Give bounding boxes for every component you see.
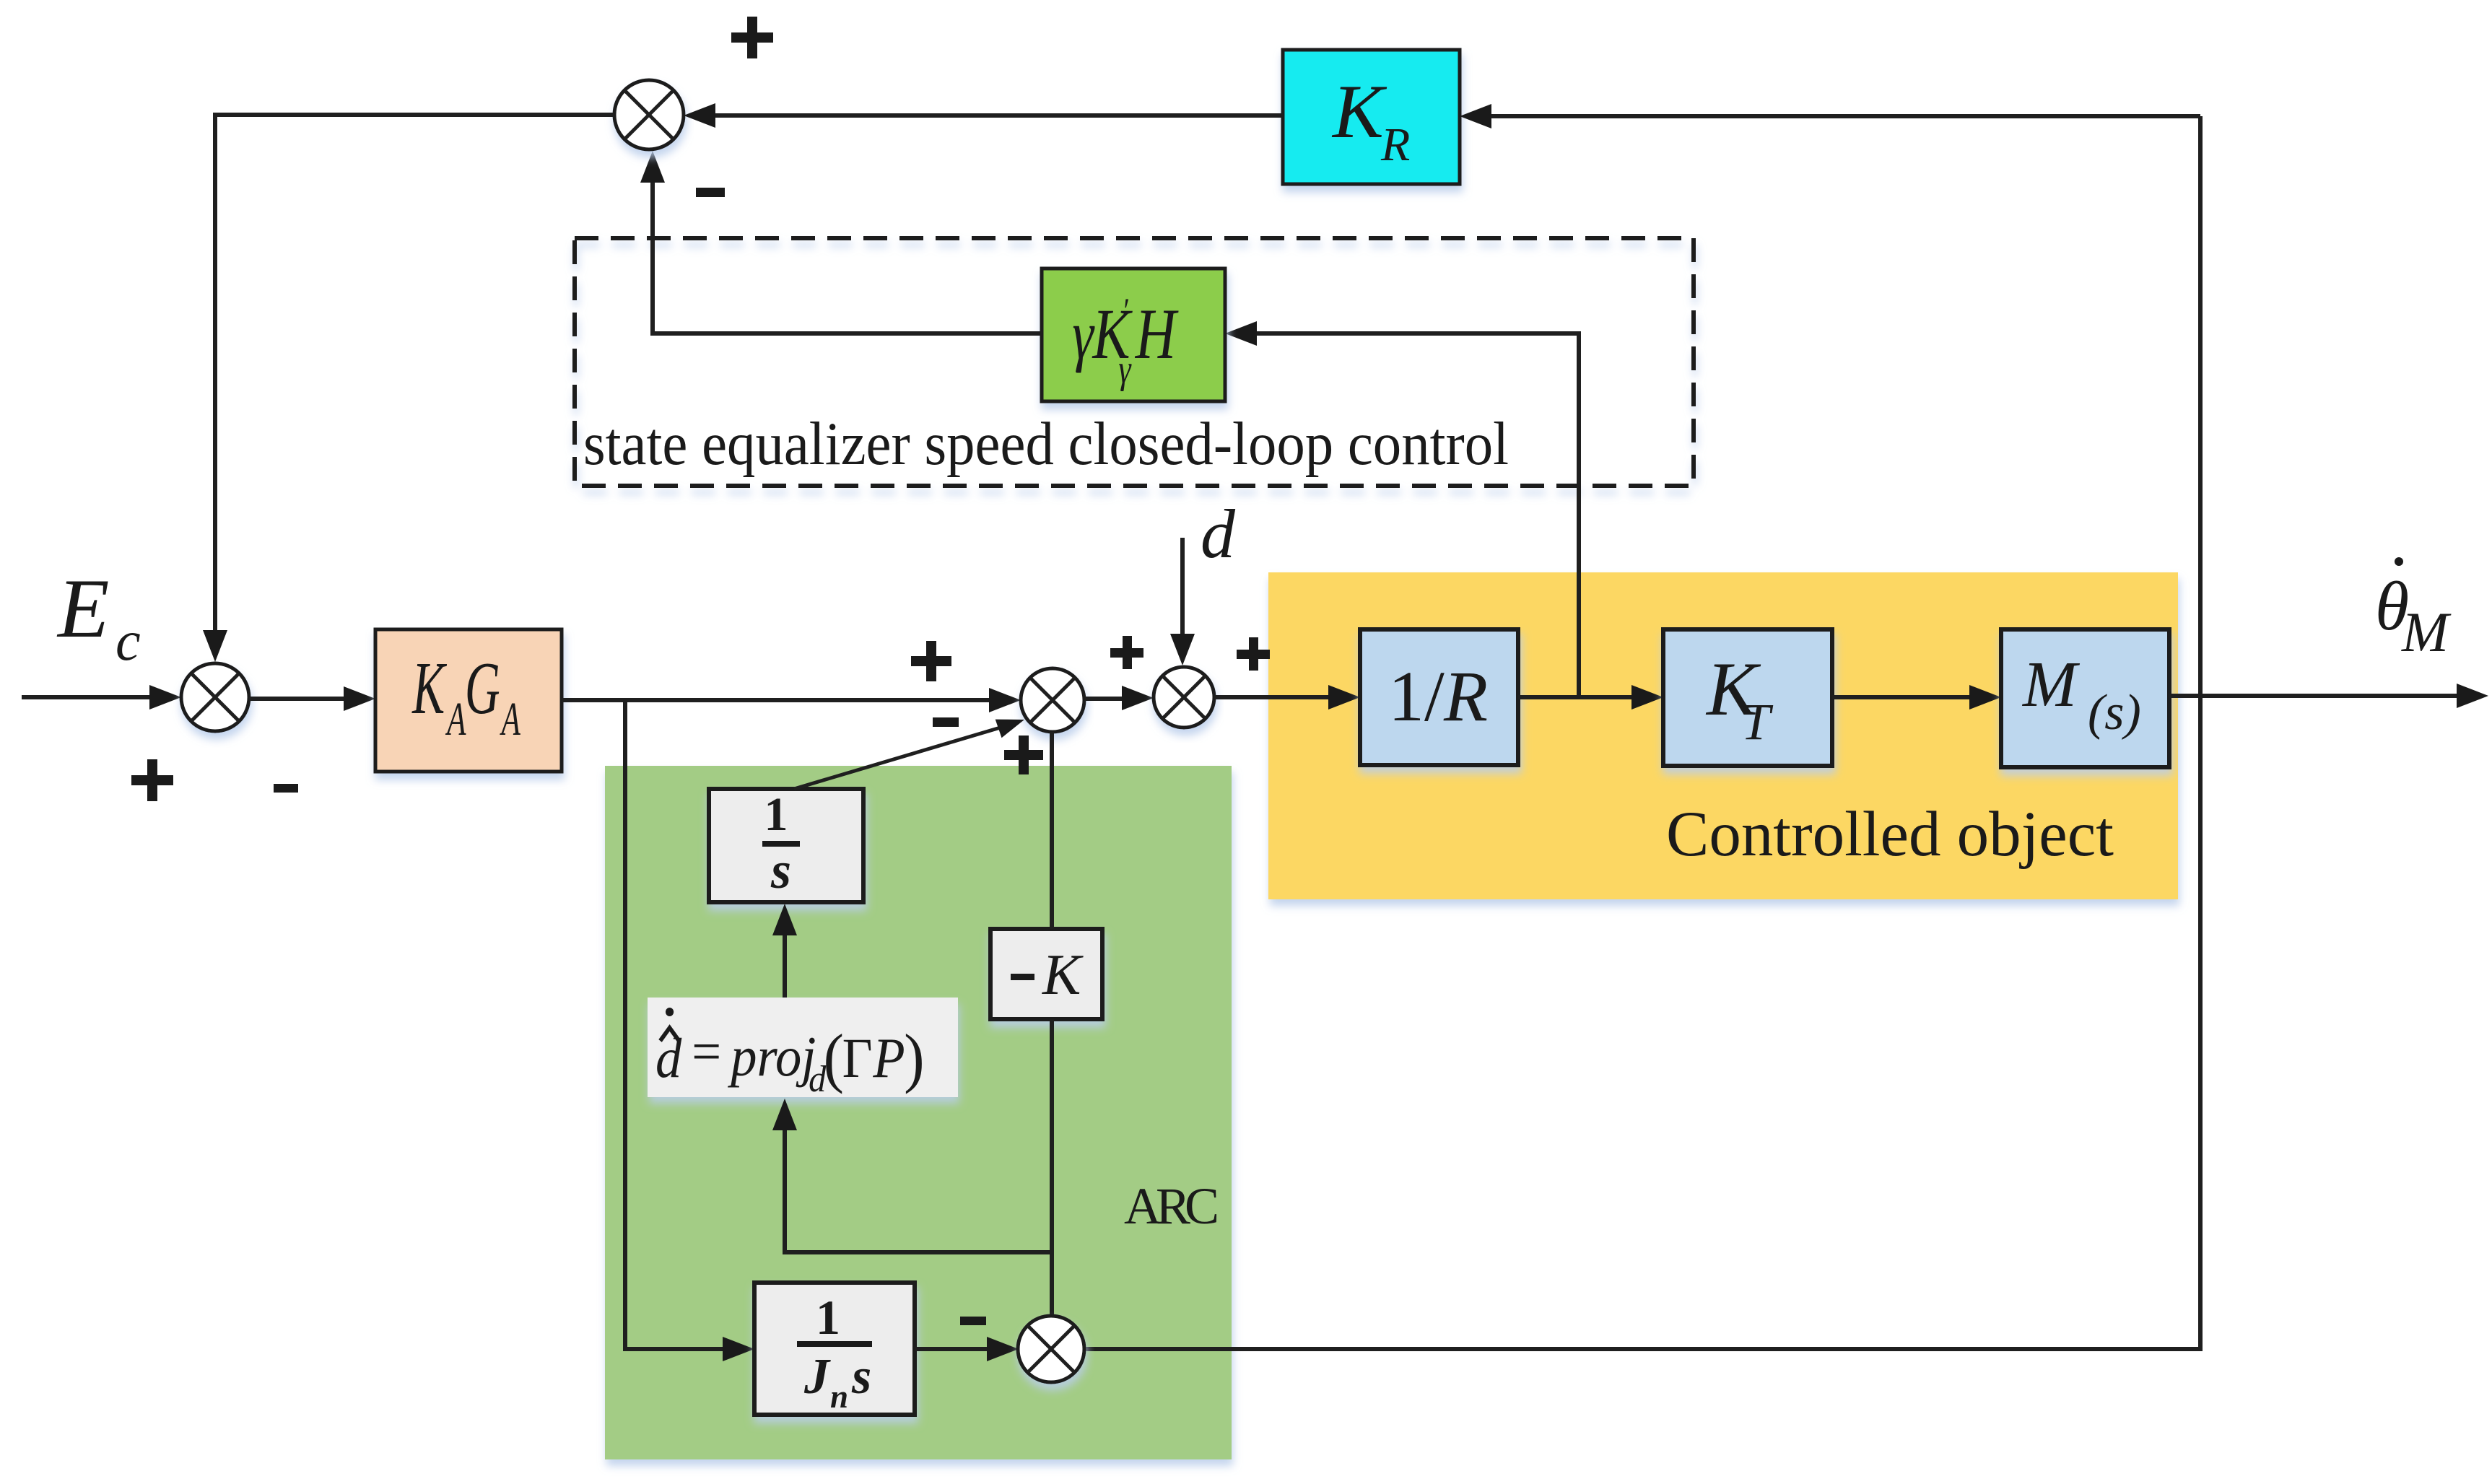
summing junction S2 xyxy=(1154,667,1214,728)
svg-text:s: s xyxy=(851,1349,871,1405)
wire: 1/R to K_T xyxy=(1518,685,1663,710)
svg-text:state equalizer speed closed-l: state equalizer speed closed-loop contro… xyxy=(583,410,1509,478)
block 1/R xyxy=(1360,629,1518,765)
wire: S1 to S2 xyxy=(1084,686,1154,710)
wire: K_R output to S_top xyxy=(684,103,1283,128)
wire: S_ec to K_A G_A xyxy=(249,686,375,711)
svg-text:s: s xyxy=(770,842,791,899)
summing junction S_top xyxy=(614,80,684,149)
wire: K_A G_A output to summing junction S1 xyxy=(562,688,1021,712)
wire: tee from -K line into proj input xyxy=(772,1099,1052,1252)
block Controlled object (yellow background) xyxy=(1268,572,2178,899)
svg-text:K: K xyxy=(1042,943,1084,1007)
sign - for S1 diagonal input xyxy=(933,717,959,727)
svg-text:=: = xyxy=(692,1021,721,1083)
wire: 1/(J_n s) to bottom sum xyxy=(915,1337,1019,1361)
sign - for bottom sum left input xyxy=(960,1317,986,1325)
block K_T xyxy=(1663,629,1832,766)
wire: bottom sum up through -K to S1 xyxy=(1050,732,1054,1316)
svg-text:P: P xyxy=(872,1028,905,1090)
svg-text:G: G xyxy=(465,647,500,730)
svg-text:J: J xyxy=(803,1349,831,1405)
wire: d down into S2 xyxy=(1170,538,1195,665)
summing junction S_ec (E_c comparison) xyxy=(181,663,249,731)
wire: output feedback vertical and bottom return xyxy=(1084,116,2200,1349)
sign - for feedback input of S_ec xyxy=(274,784,298,793)
block 1/s (inside ARC) xyxy=(709,788,863,902)
svg-text:n: n xyxy=(830,1379,848,1415)
svg-text:): ) xyxy=(904,1021,925,1094)
wire: S2 to 1/R xyxy=(1214,685,1360,710)
svg-text:(s): (s) xyxy=(2088,685,2141,741)
node d label xyxy=(1201,495,1236,572)
sign + for d input of S2 xyxy=(1237,637,1270,671)
svg-text:γ: γ xyxy=(1118,346,1131,391)
sign - for S_top bottom input xyxy=(696,188,725,197)
wire: feedback from output vertical into K_R xyxy=(1460,104,2200,128)
sign + for E_c input xyxy=(131,759,173,801)
svg-text:M: M xyxy=(2021,649,2081,720)
svg-text:1/: 1/ xyxy=(1388,656,1445,736)
svg-text:Γ: Γ xyxy=(842,1028,873,1090)
block gamma K'_gamma H (green) xyxy=(1042,269,1225,401)
svg-text:1: 1 xyxy=(816,1290,840,1345)
sign + for S2 left input xyxy=(1110,636,1143,669)
svg-text:E: E xyxy=(56,562,109,655)
svg-text:H: H xyxy=(1135,294,1179,374)
svg-text:c: c xyxy=(116,609,141,672)
dashed box: state equalizer speed closed-loop control xyxy=(575,238,1694,486)
wire: K_T to M_(s) xyxy=(1832,685,2001,710)
block -K xyxy=(990,929,1102,1019)
summing junction S_bot xyxy=(1018,1316,1084,1382)
svg-text:d: d xyxy=(1201,495,1236,572)
svg-text:proj: proj xyxy=(727,1026,816,1088)
wire: gamma K H output to top summing junction xyxy=(640,151,1042,333)
block K_A G_A (amplifier, orange) xyxy=(375,629,562,772)
svg-text:′: ′ xyxy=(1122,290,1129,331)
node E_c label xyxy=(56,562,141,672)
wire: branch from K_A G_A output down to 1/J_n s xyxy=(625,700,754,1361)
svg-text:ARC: ARC xyxy=(1124,1177,1219,1235)
block ARC (green background) xyxy=(605,766,1232,1459)
block M_(s) xyxy=(2001,629,2169,767)
node theta_M output label xyxy=(2375,557,2452,663)
wire: main input to E_c summing junction xyxy=(22,685,181,710)
svg-text:M: M xyxy=(2401,601,2452,663)
block 1/(J_n s) xyxy=(754,1283,915,1415)
block proj (gray, no border) xyxy=(648,998,958,1099)
sign + for S_top right input xyxy=(731,17,773,58)
svg-text:1: 1 xyxy=(764,788,788,841)
wire: diagonal from 1/s to S1 xyxy=(794,720,1024,789)
sign + for S1 left input xyxy=(911,641,951,681)
svg-text:A: A xyxy=(500,693,521,746)
svg-text:A: A xyxy=(445,693,466,746)
svg-text:R: R xyxy=(1380,118,1410,171)
svg-text:γ: γ xyxy=(1072,296,1094,373)
svg-text:R: R xyxy=(1443,656,1488,736)
wire: S_top output left and down into S_ec xyxy=(203,115,614,662)
wire: branch up from 1/R output to gamma-K-H block xyxy=(1225,321,1579,697)
wire: proj output up into 1/s xyxy=(772,904,797,998)
svg-text:T: T xyxy=(1741,693,1774,751)
svg-text:Controlled object: Controlled object xyxy=(1666,799,2114,870)
svg-text:(: ( xyxy=(824,1021,845,1094)
svg-text:K: K xyxy=(411,647,448,730)
svg-text:K: K xyxy=(1331,69,1387,154)
block K_R (cyan) xyxy=(1283,50,1460,184)
wire: M_(s) to output theta_M xyxy=(2169,684,2488,708)
summing junction S1 xyxy=(1021,668,1084,732)
sign + for S1 bottom input xyxy=(1004,736,1043,774)
